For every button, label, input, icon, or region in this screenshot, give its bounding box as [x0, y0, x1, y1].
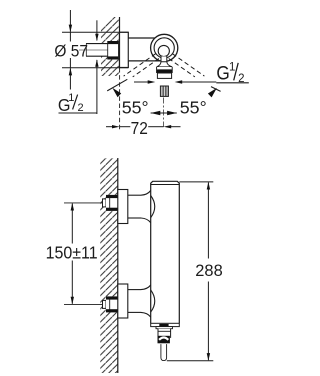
svg-text:55°: 55°: [180, 98, 207, 118]
svg-text:1: 1: [68, 92, 74, 104]
svg-text:150±11: 150±11: [46, 243, 98, 263]
svg-text:1: 1: [229, 61, 235, 73]
svg-text:G: G: [216, 63, 229, 85]
svg-text:55°: 55°: [122, 98, 149, 118]
svg-text:72: 72: [131, 118, 148, 138]
svg-text:288: 288: [195, 261, 222, 280]
svg-text:2: 2: [238, 73, 244, 85]
svg-text:Ø 57: Ø 57: [54, 41, 88, 60]
svg-text:2: 2: [78, 102, 84, 114]
